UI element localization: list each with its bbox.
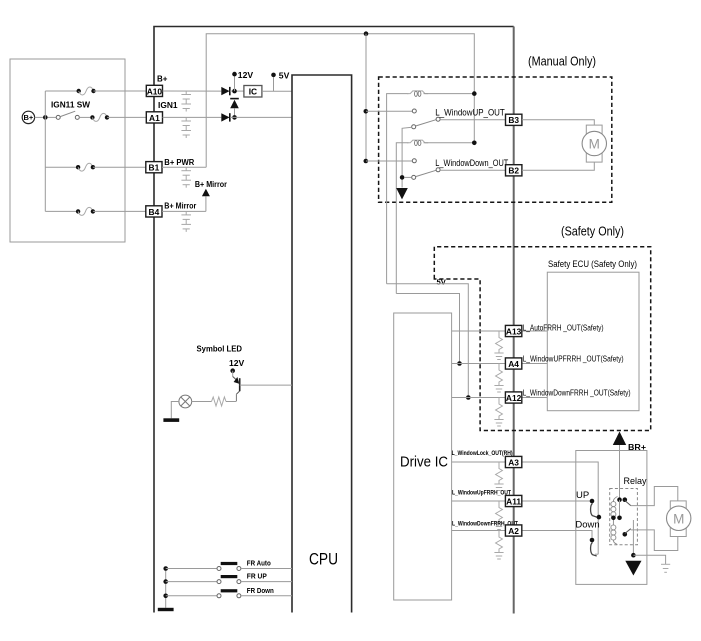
wire: motor lower feed (outside relay box)	[647, 530, 678, 551]
wire: B1 row to B+ PWR rail corner	[162, 166, 206, 168]
wire: IGN1 row into CPU	[230, 116, 292, 118]
svg-text:A13: A13	[506, 326, 522, 336]
resistor R1 (LED series)	[192, 397, 237, 406]
resistor-capacitor filter (below A2)	[494, 531, 503, 560]
fuse F3 (B+ PWR row)	[76, 163, 146, 171]
connector B2	[506, 165, 522, 176]
svg-text:L_WindowDownFRRH _OUT(Safety): L_WindowDownFRRH _OUT(Safety)	[523, 389, 631, 398]
wire: B3 to manual motor	[522, 120, 594, 125]
connector A10	[146, 75, 167, 97]
capacitor C3 (under B1 row)	[181, 167, 191, 188]
svg-text:Safety ECU (Safety Only): Safety ECU (Safety Only)	[548, 259, 637, 269]
wire: A1 row to diode D2	[163, 116, 222, 118]
node: junction to UP switch	[364, 109, 369, 114]
relay upper contact blade	[620, 500, 631, 518]
svg-text:B2: B2	[508, 166, 519, 176]
svg-text:L_WindowDown_OUT: L_WindowDown_OUT	[435, 158, 508, 168]
resistor-capacitor filter (below A3)	[494, 462, 503, 491]
relay module outer box	[576, 451, 647, 585]
svg-text:M: M	[589, 137, 600, 152]
diode D2 (IGN1 row)	[221, 113, 230, 121]
node: battery feed junction	[43, 115, 48, 120]
node: junction on A12 row	[466, 395, 471, 400]
svg-text:A1: A1	[149, 113, 160, 123]
12V supply tap	[232, 70, 253, 91]
diode D3 (between rows, pointing up)	[230, 99, 239, 118]
svg-text:B3: B3	[508, 115, 519, 125]
IC U1	[244, 86, 292, 98]
B+ Mirror arrow	[195, 179, 228, 212]
svg-text:UP: UP	[576, 490, 589, 501]
resistor-capacitor filter (below A4)	[494, 364, 503, 393]
wire: B+ PWR rail from B1 up and across top to manual-switch feed	[206, 34, 474, 168]
node: junction on top rail feeding switch commons	[364, 31, 369, 36]
wire: fuse box vertical feed rail	[45, 91, 78, 211]
relay coil K1a	[611, 497, 618, 518]
Safety ECU box	[547, 259, 639, 411]
wire: A10 row to diode D1	[163, 90, 222, 92]
connector A3	[452, 450, 522, 467]
wire: A12 row	[452, 397, 548, 399]
(Manual Only) dashed enclosure	[379, 55, 612, 203]
svg-text:B+ Mirror: B+ Mirror	[195, 179, 228, 189]
svg-text:Symbol LED: Symbol LED	[197, 343, 243, 353]
ground (FR switches)	[158, 608, 174, 611]
wire: A11 row (window up out)	[452, 500, 590, 502]
switch IGN11 SW	[48, 100, 91, 120]
wire: relay NO to motor lower feed	[631, 529, 647, 531]
connector A11	[452, 490, 522, 507]
svg-text:B+ Mirror: B+ Mirror	[164, 201, 197, 211]
wire: FR switch common rail	[165, 569, 167, 608]
fuse F4 (B+ Mirror row)	[76, 207, 146, 215]
svg-text:L_AutoFRRH _OUT(Safety): L_AutoFRRH _OUT(Safety)	[523, 324, 604, 333]
svg-text:B+ PWR: B+ PWR	[164, 157, 195, 167]
switch S5 (manual window UP)	[366, 107, 506, 187]
relay (dashed)	[610, 476, 647, 545]
wire: relay NC to motor upper feed	[631, 505, 647, 507]
connector A4	[505, 355, 623, 370]
switch S4 (FR Down)	[163, 588, 292, 598]
svg-text:Relay: Relay	[624, 476, 647, 487]
wire: A13 row	[452, 330, 548, 332]
svg-text:B4: B4	[149, 207, 160, 217]
resistor-capacitor filter (below A12)	[494, 398, 503, 427]
wire: relay to ground drop	[632, 520, 634, 555]
5V supply tap	[271, 70, 289, 91]
switch S6 (manual window DOWN)	[366, 158, 509, 180]
svg-text:5V: 5V	[437, 278, 447, 287]
resistor-capacitor filter (below A11)	[494, 501, 503, 530]
connector B3	[506, 114, 522, 125]
svg-text:L_WindowUPFRRH _OUT(Safety): L_WindowUPFRRH _OUT(Safety)	[523, 355, 624, 364]
svg-text:FR UP: FR UP	[247, 574, 267, 581]
svg-text:FR Down: FR Down	[247, 588, 274, 595]
motor M1 (manual window motor)	[582, 125, 606, 162]
battery B+	[22, 111, 34, 123]
svg-text:B+: B+	[24, 113, 34, 122]
(Safety Only) dashed enclosure	[434, 225, 650, 431]
wire: A2 row (window down out)	[452, 531, 592, 538]
lamp: Symbol LED	[179, 343, 242, 408]
capacitor C2 (under A1 row)	[181, 117, 191, 138]
connector A1	[146, 100, 178, 123]
svg-text:CPU: CPU	[309, 551, 338, 569]
svg-text:L_WindowLock_OUT(RH): L_WindowLock_OUT(RH)	[452, 450, 513, 457]
connector A2	[452, 520, 522, 536]
node: junction on A4 row	[457, 361, 462, 366]
BR+ supply arrow	[613, 432, 646, 500]
resistor-capacitor filter (below A13)	[494, 331, 503, 360]
svg-text:A10: A10	[147, 86, 163, 96]
wire: motor upper feed (outside relay box)	[647, 487, 678, 506]
svg-text:A12: A12	[506, 393, 522, 403]
switch S3 (FR UP)	[163, 574, 292, 584]
switch S2 (FR Auto)	[163, 561, 292, 571]
wire: battery to feed node	[35, 116, 46, 118]
node: ground junction under relay	[631, 553, 636, 558]
connector A12	[505, 389, 630, 404]
junction box (fuse box) outline	[10, 59, 125, 242]
svg-text:IGN11 SW: IGN11 SW	[51, 100, 91, 110]
connector B1	[146, 157, 195, 173]
fuse F2 (IGN1 row)	[90, 113, 146, 121]
ground (chassis, small)	[661, 564, 670, 572]
relay coil K1b	[611, 518, 618, 545]
svg-text:Down: Down	[575, 519, 599, 530]
capacitor C1 (under A10 row)	[181, 91, 191, 112]
ground (LED)	[163, 402, 179, 422]
svg-text:(Safety Only): (Safety Only)	[561, 225, 624, 239]
fuse F5 (window UP feed)	[387, 91, 477, 284]
op-amp/CPU box U2	[292, 75, 352, 613]
wire: A4 row	[452, 363, 548, 365]
node: BR+ common (upper contact)	[617, 497, 627, 502]
svg-text:A3: A3	[508, 457, 519, 467]
capacitor C4 (under B4 row)	[181, 211, 191, 232]
op-amp/Drive IC box U3	[394, 313, 452, 600]
svg-text:A4: A4	[508, 359, 519, 369]
svg-text:12V: 12V	[238, 70, 254, 80]
svg-text:5V: 5V	[279, 70, 290, 80]
fuse F1 (B+ row)	[77, 87, 147, 95]
node: 12V junction on B+ row	[232, 89, 237, 94]
svg-text:12V: 12V	[229, 358, 245, 368]
switch Down contact (relay drive)	[575, 519, 599, 556]
connector A13	[505, 324, 603, 337]
svg-text:M: M	[673, 511, 684, 526]
node: junction on IGN1 row	[232, 115, 237, 120]
node: coil/rail junctions	[611, 516, 622, 521]
svg-text:A2: A2	[508, 526, 519, 536]
svg-text:Drive IC: Drive IC	[400, 455, 448, 471]
svg-text:L_WindowUpFRRH_OUT: L_WindowUpFRRH_OUT	[452, 490, 511, 497]
wire: switch common drop at x=366	[365, 34, 367, 161]
ground (manual switches)	[396, 188, 408, 199]
wire: vertical trunk bus (right edge of module)	[513, 27, 515, 614]
svg-text:B+: B+	[157, 75, 168, 84]
node: junction to DOWN switch	[364, 159, 369, 164]
svg-text:IGN1: IGN1	[158, 100, 178, 110]
svg-text:B1: B1	[149, 163, 160, 173]
12V tap for LED driver	[229, 358, 245, 373]
svg-text:(Manual Only): (Manual Only)	[528, 55, 596, 69]
switch UP contact (relay drive)	[576, 490, 601, 519]
fuse F6 (window DOWN feed)	[396, 140, 476, 293]
wire: manual DOWN feed down to A4 row	[396, 294, 459, 364]
wire: B4 row to mirror arrow stem	[162, 210, 206, 212]
svg-text:L_WindowUP_OUT: L_WindowUP_OUT	[435, 107, 505, 117]
transistor Q1 (PNP)	[233, 371, 292, 402]
motor M2 (rear window motor)	[667, 501, 691, 537]
wire: main module outer box (left edge, top edge, bottom-left line)	[154, 27, 514, 613]
relay lower contact blade	[623, 529, 631, 537]
connector B4	[146, 201, 197, 217]
diode D1 (B+ row)	[221, 87, 244, 95]
svg-text:IC: IC	[249, 87, 257, 97]
ground (relay, large arrow)	[625, 561, 641, 576]
wire: manual UP feed down to A12 row	[387, 284, 469, 398]
wire: A3 row (window lock out)	[452, 462, 599, 554]
wire: B2 to manual motor	[522, 162, 594, 170]
svg-text:FR Auto: FR Auto	[247, 561, 271, 568]
wire: ground junction to chassis ground	[633, 555, 665, 564]
svg-text:A11: A11	[506, 496, 521, 506]
